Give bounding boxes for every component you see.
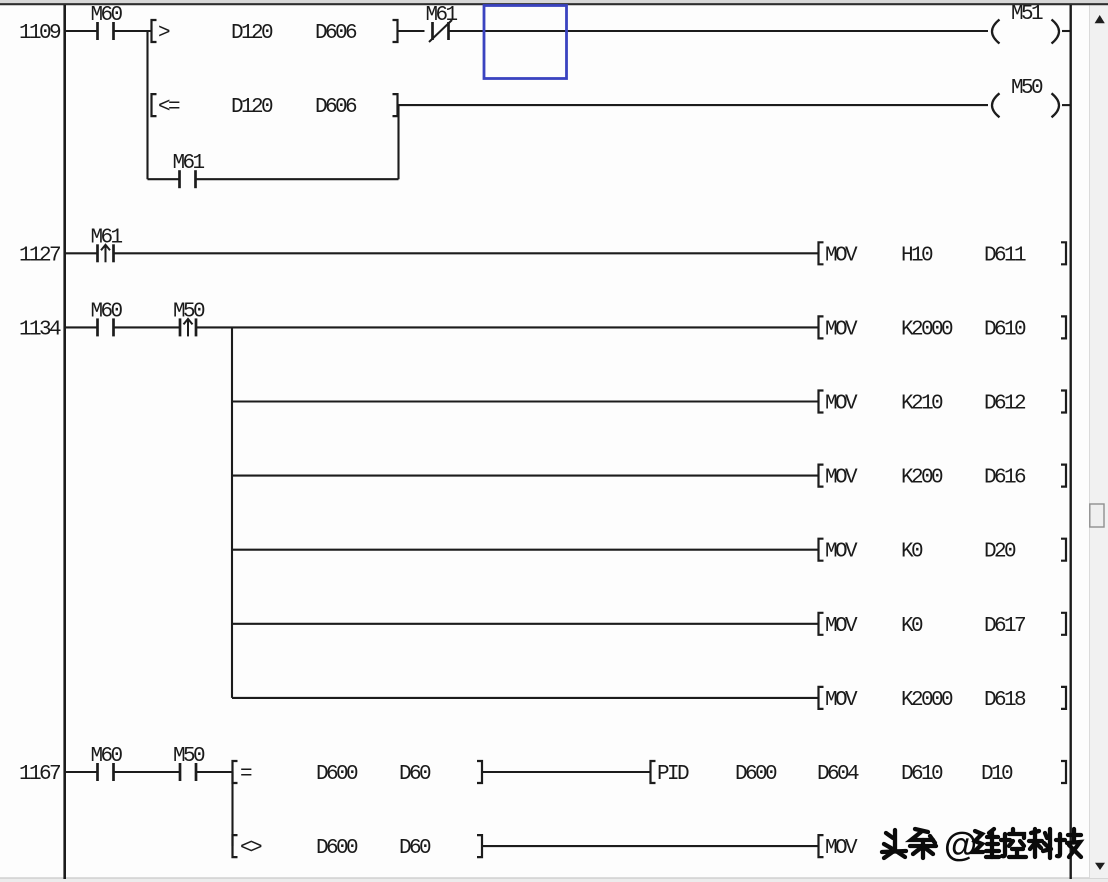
wire: [232, 623, 819, 625]
instruction [MOV ... (partly hidden): [819, 835, 859, 860]
left power rail: [63, 5, 66, 879]
svg-text:M61: M61: [426, 4, 458, 27]
contact M50 (rising pulse): [173, 300, 205, 336]
svg-text:K0: K0: [901, 615, 923, 638]
wire: [449, 30, 989, 32]
svg-text:1109: 1109: [19, 22, 61, 45]
wire: [65, 252, 97, 254]
contact M50: [173, 745, 205, 781]
scrollbar down arrow: [1095, 863, 1105, 870]
svg-text:D611: D611: [984, 244, 1026, 267]
instruction [PID D600 D604 D610 D10 ]: [651, 761, 1067, 786]
branch wire down: [231, 327, 233, 698]
wire: [114, 30, 152, 32]
compare block [= D600 D60 ]: [233, 761, 483, 786]
svg-text:D10: D10: [981, 763, 1013, 786]
svg-text:D606: D606: [315, 22, 357, 45]
scrollbar thumb: [1090, 504, 1104, 527]
wire: [65, 30, 97, 32]
instruction [MOV K200 D616 ]: [819, 465, 1067, 490]
window bottom bar: [0, 878, 1108, 882]
svg-text:1127: 1127: [19, 244, 60, 267]
svg-text:D60: D60: [399, 837, 431, 860]
wire: [232, 400, 819, 402]
svg-text:1134: 1134: [19, 318, 61, 341]
svg-text:K210: K210: [901, 393, 943, 416]
svg-text:K2000: K2000: [901, 689, 953, 712]
wire: [65, 326, 97, 328]
svg-text:M50: M50: [1011, 77, 1043, 100]
svg-text:D600: D600: [316, 763, 358, 786]
right power rail: [1069, 5, 1071, 879]
svg-text:D617: D617: [984, 615, 1025, 638]
svg-text:MOV: MOV: [825, 393, 858, 416]
rung number 1134: [19, 318, 61, 341]
wire: [232, 697, 819, 699]
instruction [MOV K210 D612 ]: [819, 391, 1067, 416]
svg-text:<=: <=: [158, 96, 180, 119]
coil M51: [992, 3, 1070, 44]
selection cursor (blue box): [484, 6, 567, 79]
contact M60: [91, 4, 123, 40]
svg-text:D618: D618: [984, 689, 1026, 712]
rung number 1109: [19, 22, 61, 45]
scrollbar up arrow: [1095, 15, 1105, 23]
wire: [483, 771, 652, 773]
svg-text:M51: M51: [1011, 3, 1043, 26]
svg-text:D120: D120: [231, 96, 273, 119]
wire: [398, 104, 988, 106]
wire: [483, 845, 820, 847]
svg-text:1167: 1167: [19, 763, 60, 786]
svg-text:K0: K0: [901, 541, 923, 564]
compare block [&lt;&gt; D600 D60 ]: [233, 835, 483, 860]
branch wire down: [146, 31, 148, 179]
svg-text:MOV: MOV: [825, 541, 858, 564]
svg-text:M61: M61: [173, 152, 205, 175]
wire: [114, 771, 180, 773]
svg-text:D600: D600: [735, 763, 777, 786]
svg-text:D20: D20: [984, 541, 1016, 564]
wire: [196, 178, 399, 180]
svg-text:K200: K200: [901, 467, 943, 490]
vertical scrollbar track: [1089, 6, 1108, 879]
svg-text:MOV: MOV: [825, 467, 858, 490]
svg-text:M50: M50: [173, 745, 205, 768]
svg-text:K2000: K2000: [901, 318, 953, 341]
svg-text:M60: M60: [91, 745, 123, 768]
instruction [MOV K2000 D618 ]: [819, 687, 1067, 712]
svg-text:PID: PID: [657, 763, 689, 786]
watermark 头条 @维控科技: [882, 826, 1081, 864]
svg-text:H10: H10: [901, 244, 933, 267]
contact M61: [173, 152, 205, 188]
wire: [148, 178, 180, 180]
compare block [&gt; D120 D606 ]: [152, 20, 398, 45]
svg-text:MOV: MOV: [825, 689, 858, 712]
svg-text:MOV: MOV: [825, 244, 858, 267]
contact M60: [91, 300, 123, 336]
svg-text:M60: M60: [91, 300, 123, 323]
svg-text:MOV: MOV: [825, 615, 858, 638]
instruction [MOV K0 D617 ]: [819, 613, 1067, 638]
compare block [&lt;= D120 D606 ]: [152, 94, 398, 119]
svg-text:D610: D610: [984, 318, 1026, 341]
svg-text:D120: D120: [231, 22, 273, 45]
svg-text:<>: <>: [240, 837, 262, 860]
svg-text:@: @: [944, 826, 977, 864]
rung number 1127: [19, 244, 60, 267]
svg-text:D60: D60: [399, 763, 431, 786]
instruction [MOV K2000 D610 ]: [819, 316, 1067, 341]
svg-text:D616: D616: [984, 467, 1026, 490]
window top border: [0, 0, 1108, 4]
instruction [MOV K0 D20 ]: [819, 539, 1067, 564]
svg-text:M50: M50: [173, 300, 205, 323]
wire: [196, 326, 819, 328]
svg-text:D612: D612: [984, 393, 1026, 416]
contact M60: [91, 745, 123, 781]
wire: [232, 475, 819, 477]
wire: [114, 252, 820, 254]
contact M61 (NC): [426, 4, 458, 42]
coil M50: [992, 77, 1070, 117]
svg-text:D600: D600: [316, 837, 358, 860]
wire: [114, 326, 180, 328]
svg-text:D604: D604: [817, 763, 859, 786]
rung number 1167: [19, 763, 60, 786]
wire: [232, 549, 819, 551]
svg-text:M60: M60: [91, 4, 123, 27]
svg-text:M61: M61: [91, 226, 123, 249]
wire: [196, 771, 233, 773]
svg-text:MOV: MOV: [825, 318, 858, 341]
wire: [398, 30, 425, 32]
svg-text:D610: D610: [901, 763, 943, 786]
instruction [MOV H10 D611 ]: [819, 242, 1067, 267]
svg-text:MOV: MOV: [825, 837, 858, 860]
branch wire down: [231, 772, 233, 846]
svg-text:D606: D606: [315, 96, 357, 119]
wire: [65, 771, 97, 773]
contact M61 (rising pulse): [91, 226, 123, 262]
branch join wire: [397, 105, 399, 179]
